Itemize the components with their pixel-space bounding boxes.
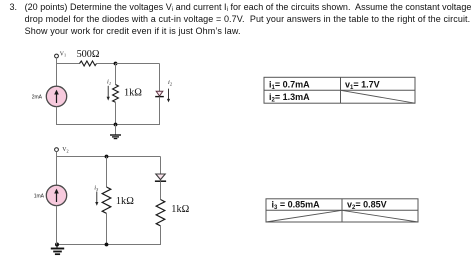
svg-text:1mA: 1mA (34, 193, 45, 199)
wire right branch middle (160, 181, 162, 199)
wire top right segment (116, 63, 160, 65)
table2 crossed-out cell diagonal right (342, 210, 418, 222)
svg-text:500Ω: 500Ω (77, 49, 100, 60)
wire middle branch lower (106, 213, 108, 244)
svg-text:v2= 0.85V: v2= 0.85V (347, 200, 387, 212)
svg-text:1kΩ: 1kΩ (171, 204, 189, 215)
wire terminal to source top (56, 58, 58, 87)
resistor R2 1kohm (113, 85, 143, 103)
terminal node V2 (55, 147, 69, 153)
node junction dot bottom (114, 123, 118, 127)
svg-text:2mA: 2mA (32, 94, 43, 100)
svg-text:1kΩ: 1kΩ (124, 88, 142, 99)
svg-text:i3 = 0.85mA: i3 = 0.85mA (272, 200, 321, 212)
node junction dot bottom left (55, 243, 59, 247)
svg-text:V1: V1 (60, 51, 66, 57)
wire bottom rail top circuit (56, 124, 160, 126)
table1 frame (264, 77, 415, 103)
table2 frame (266, 199, 418, 222)
resistor R1 500ohm (77, 49, 100, 66)
table2 crossed-out cell diagonal left (266, 210, 342, 222)
terminal node V1 (55, 51, 66, 57)
svg-text:i3: i3 (94, 184, 99, 192)
resistor R3 1kohm (102, 187, 134, 213)
wire terminal to source top (56, 151, 58, 185)
wire source bottom to ground (56, 206, 58, 245)
table1 crossed-out cell diagonal (341, 90, 416, 103)
node junction dot bottom mid (105, 243, 109, 247)
resistor R4 1kohm (156, 200, 189, 226)
wire top left segment (56, 63, 80, 65)
wire middle branch upper (106, 157, 108, 188)
problem statement text (10, 2, 18, 12)
ground top circuit (110, 125, 121, 139)
svg-text:1kΩ: 1kΩ (116, 196, 134, 207)
diode D2 (155, 174, 166, 181)
current source I2 1mA (34, 185, 67, 205)
wire right branch lower (159, 97, 161, 125)
wire top mid segment (97, 63, 116, 65)
svg-text:V2: V2 (62, 147, 68, 153)
node junction dot top mid (105, 155, 109, 159)
svg-text:i1: i1 (107, 78, 111, 86)
current label i2 (167, 79, 173, 102)
wire middle branch upper (115, 64, 117, 85)
ground bottom circuit (51, 245, 64, 255)
wire right branch upper (160, 157, 162, 175)
wire bottom rail bottom circuit (56, 244, 161, 246)
svg-text:i1= 0.7mA: i1= 0.7mA (269, 79, 310, 91)
wire right branch lower (160, 226, 162, 245)
svg-text:i2: i2 (168, 79, 173, 87)
diode D1 (155, 91, 164, 96)
current label i3 (94, 184, 99, 206)
current source I1 2mA (32, 86, 67, 106)
current label i1 (107, 78, 111, 100)
wire right branch upper (159, 64, 161, 92)
svg-text:v1= 1.7V: v1= 1.7V (345, 79, 380, 91)
wire top rail bottom circuit (56, 156, 161, 158)
node junction dot top (114, 62, 118, 66)
wire source bottom to rail (56, 107, 58, 125)
wire middle branch lower (115, 102, 117, 124)
svg-text:i2= 1.3mA: i2= 1.3mA (269, 92, 310, 104)
